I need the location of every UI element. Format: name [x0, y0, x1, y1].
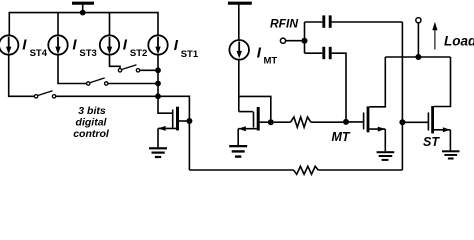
- wire MT gate lead: [346, 121, 363, 123]
- transistor Mmid source lead with arrow: [238, 126, 257, 145]
- wire ST gate lead: [402, 121, 428, 123]
- transistor MT drain lead: [369, 57, 385, 107]
- node supply bus junction: [80, 10, 86, 16]
- wire IMT to Mmid gate: [238, 60, 240, 112]
- transistor Mmid drain stub: [260, 121, 271, 123]
- wire bus to Msw drain column: [158, 96, 189, 170]
- capacitor C1: [324, 15, 330, 27]
- wire C1 to output column: [332, 21, 403, 23]
- svg-text:I: I: [22, 37, 27, 54]
- wire to capacitor C2: [305, 52, 323, 54]
- capacitor C2: [324, 47, 330, 59]
- node bus-S2: [155, 67, 161, 73]
- svg-text:Load: Load: [444, 33, 474, 48]
- wire Msw gate feed: [158, 96, 172, 113]
- svg-text:3 bits: 3 bits: [78, 105, 106, 117]
- current source IST2: [100, 35, 119, 54]
- svg-text:ST3: ST3: [79, 48, 96, 59]
- transistor Msw gate plate: [172, 110, 174, 128]
- wire ST gate column: [401, 22, 403, 170]
- svg-text:I: I: [72, 37, 77, 54]
- ground Msw: [149, 147, 167, 158]
- node RFIN: [302, 38, 308, 44]
- transistor Mmid channel: [257, 107, 260, 131]
- wire IST3 to switch: [58, 55, 87, 84]
- wire stub IST3 top: [57, 13, 59, 36]
- wire switch S4 to bus: [56, 95, 158, 97]
- wire RFIN to node: [286, 40, 305, 42]
- wire switch S2 to bus: [140, 69, 158, 71]
- current source IMT: [229, 40, 249, 60]
- svg-text:ST4: ST4: [30, 48, 48, 59]
- resistor R1 bias line: [274, 117, 346, 127]
- current source IST1: [148, 35, 167, 54]
- svg-text:ST: ST: [423, 135, 440, 149]
- label IMT: [257, 45, 278, 67]
- transistor ST drain lead: [434, 57, 451, 107]
- transistor ST channel: [431, 106, 434, 133]
- wire Mmid diode loop: [239, 96, 271, 122]
- node ST gate: [399, 119, 405, 125]
- wire switch S3 to bus: [108, 83, 158, 85]
- node bus-S3: [155, 81, 161, 87]
- switch S3: [87, 78, 108, 85]
- transistor Msw drain stub: [179, 120, 190, 122]
- svg-text:I: I: [174, 37, 179, 54]
- current source IST4: [0, 35, 18, 54]
- wire right bus vertical: [157, 55, 159, 97]
- resistor R2: [294, 166, 319, 174]
- transistor ST source lead with arrow: [434, 127, 451, 150]
- node Mmid drain: [268, 119, 274, 125]
- svg-text:digital: digital: [76, 117, 108, 129]
- svg-text:I: I: [257, 45, 262, 62]
- svg-text:RFIN: RFIN: [270, 17, 298, 31]
- transistor MT source lead with arrow: [369, 127, 385, 152]
- svg-text:ST2: ST2: [130, 48, 147, 59]
- svg-text:MT: MT: [264, 56, 278, 67]
- node Msw drain: [186, 118, 192, 124]
- label IST1: [174, 37, 199, 60]
- label IST3: [72, 37, 96, 60]
- node MT gate: [343, 119, 349, 125]
- ground MT: [377, 151, 395, 161]
- current source IST3: [48, 35, 67, 54]
- transistor ST gate plate: [427, 112, 429, 130]
- switch S2: [118, 65, 139, 72]
- wire C2 to MT gate: [332, 53, 346, 122]
- transistor Msw source lead with arrow: [158, 126, 176, 147]
- transistor Mmid gate plate: [253, 112, 255, 128]
- supply symbol VDD left: [72, 3, 94, 12]
- label IST4: [22, 37, 47, 60]
- ground ST: [442, 150, 460, 159]
- node output: [415, 54, 421, 60]
- label IST2: [123, 37, 148, 60]
- wire output terminal drop: [417, 23, 419, 57]
- transistor MT gate plate: [363, 113, 365, 130]
- wire top supply bus: [9, 13, 158, 36]
- svg-text:ST1: ST1: [181, 49, 199, 60]
- transistor MT channel: [367, 106, 370, 132]
- terminal RFIN input: [280, 38, 285, 43]
- ground Mmid: [229, 145, 247, 158]
- supply symbol VDD middle: [228, 3, 252, 39]
- switch S4: [34, 91, 55, 98]
- svg-text:control: control: [73, 128, 110, 140]
- wire stub IST2 top: [109, 13, 111, 36]
- wire Mmid gate lead: [239, 111, 253, 113]
- transistor Msw channel: [176, 107, 179, 131]
- svg-text:I: I: [123, 37, 128, 54]
- wire to capacitor C1: [305, 21, 323, 23]
- arrow load current: [432, 22, 437, 50]
- wire bottom bias bus: [189, 169, 293, 171]
- wire output node horizontal: [385, 56, 450, 58]
- node bus-S4: [155, 93, 161, 99]
- wire IST2 to switch: [110, 55, 121, 69]
- svg-text:MT: MT: [332, 130, 351, 144]
- terminal output: [416, 18, 421, 23]
- wire bottom bias bus right: [318, 169, 402, 171]
- label 3 bits digital control: [73, 105, 110, 140]
- wire RFIN node vertical: [304, 22, 306, 53]
- wire IST4 to switch: [9, 55, 35, 97]
